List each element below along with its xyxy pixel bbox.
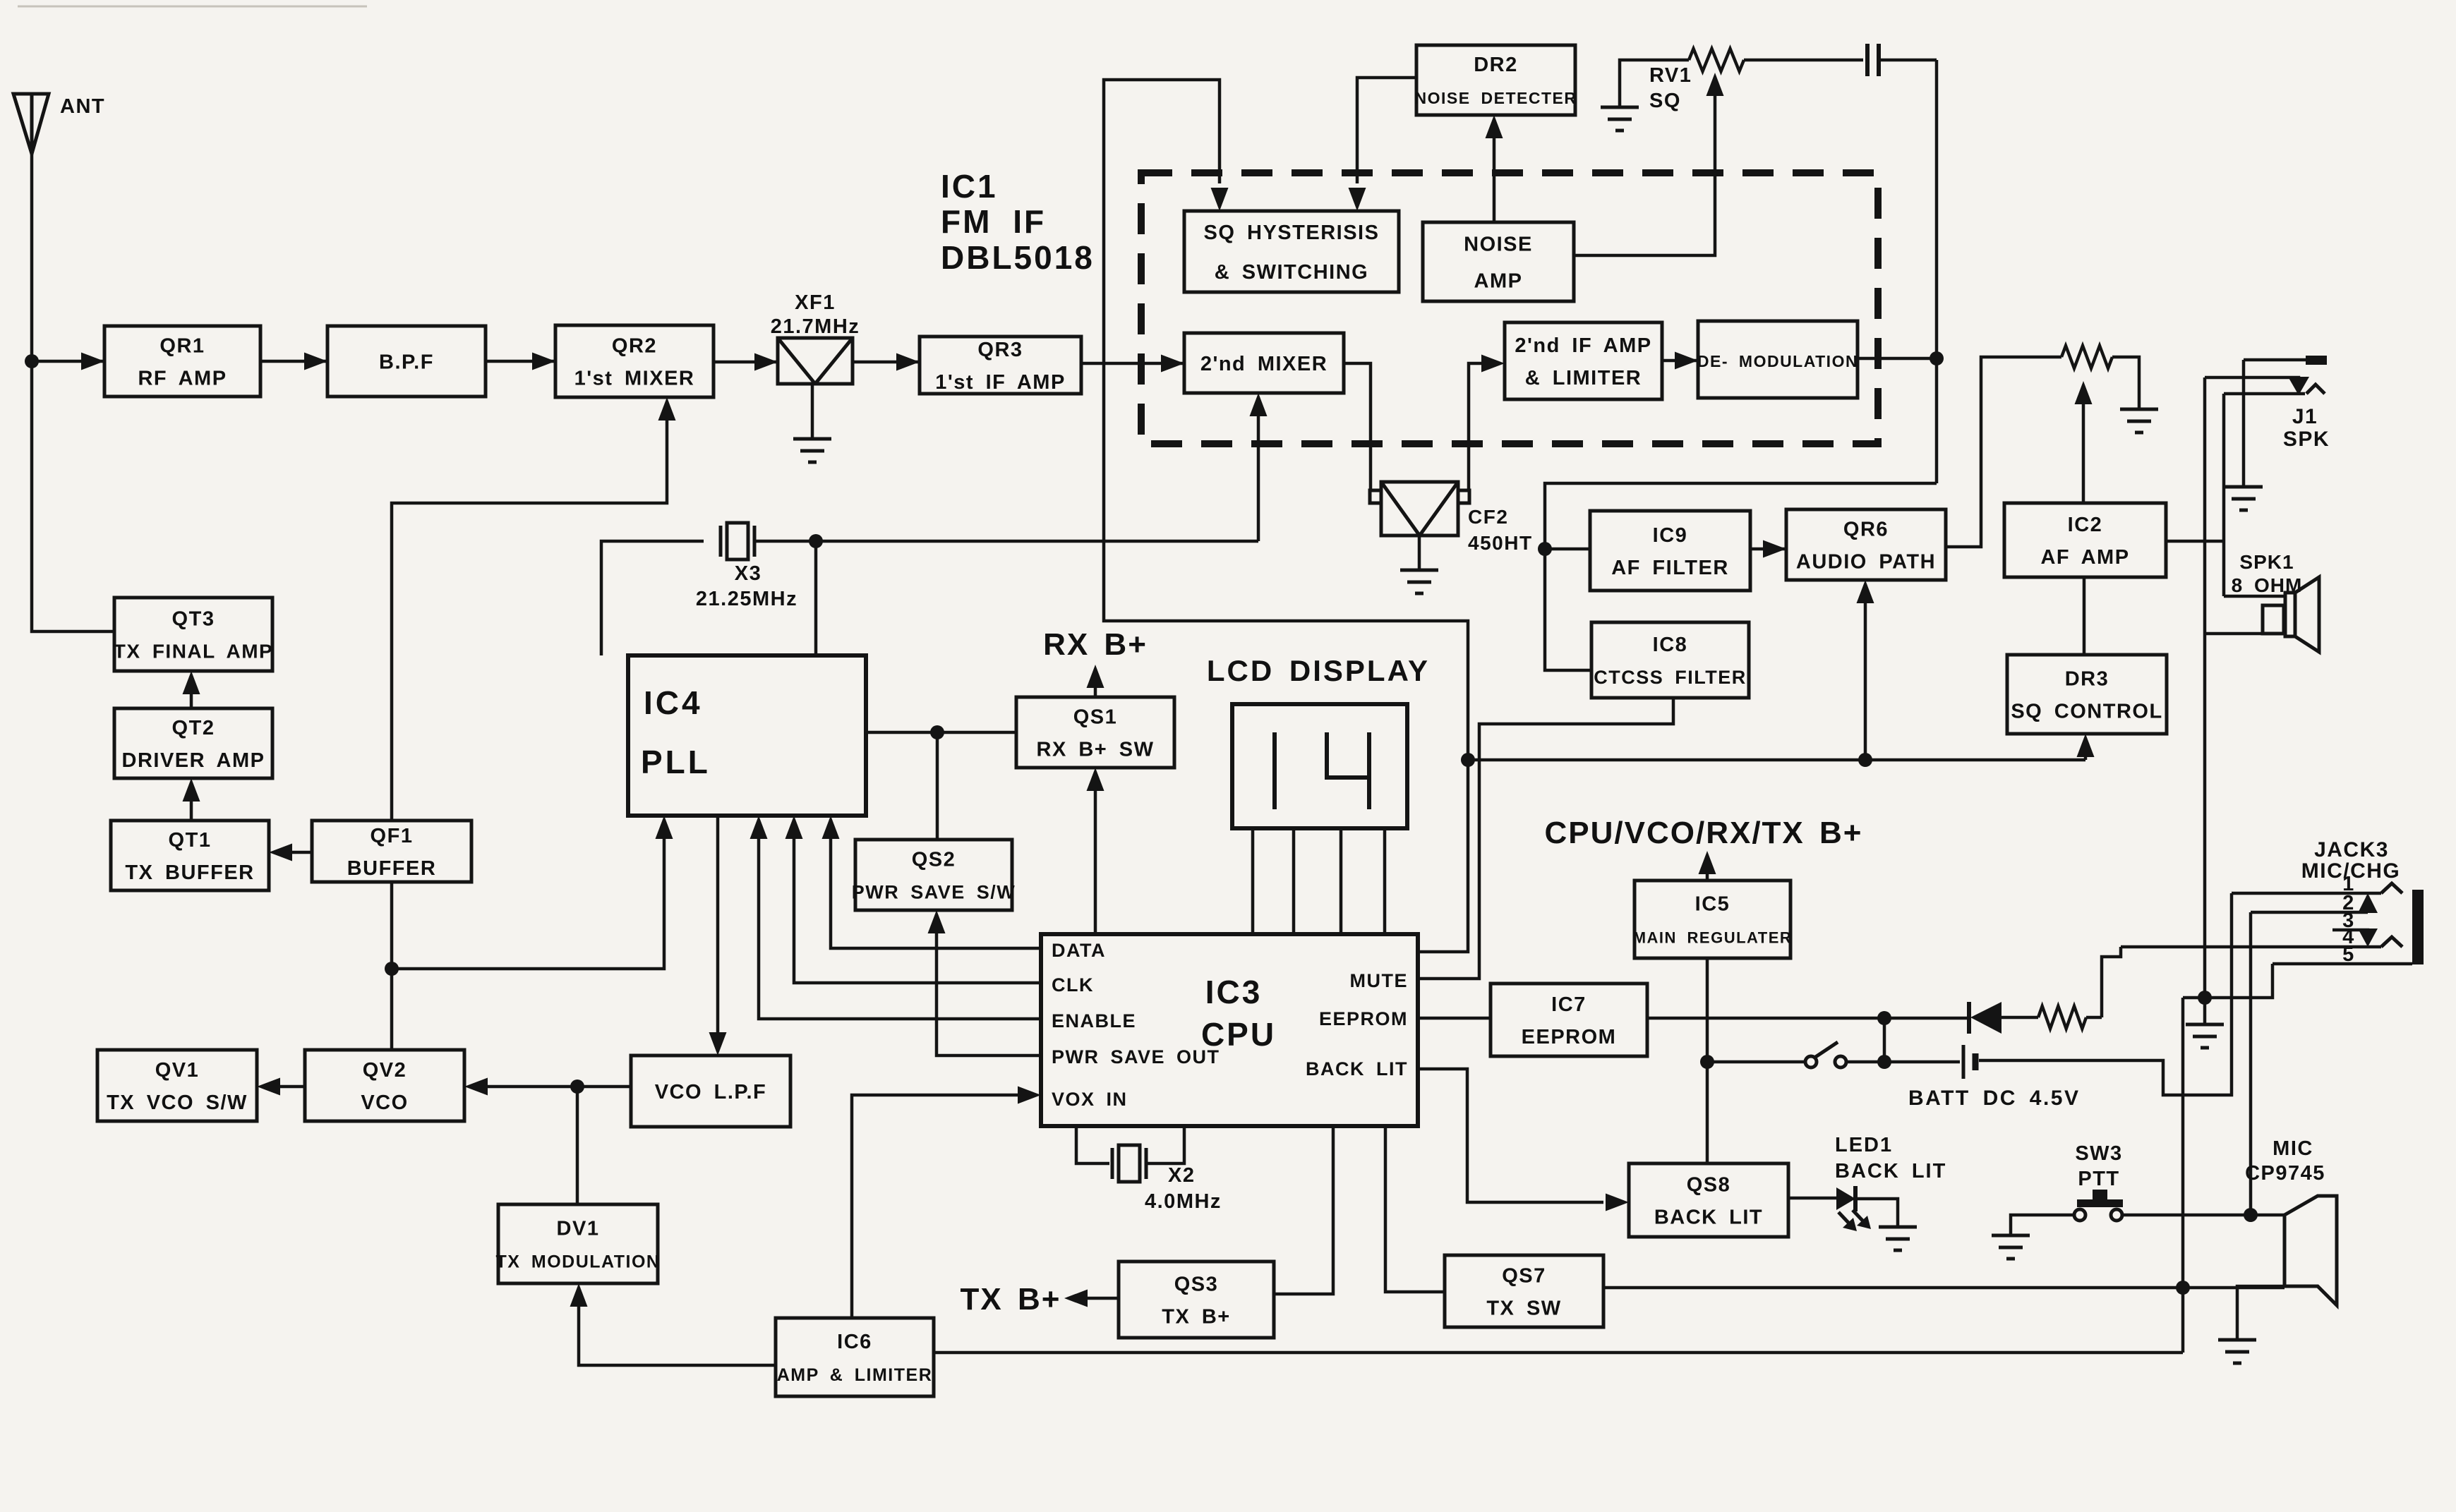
svg-text:2'nd MIXER: 2'nd MIXER [1200, 353, 1328, 375]
block IC7 EEPROM [1491, 984, 1647, 1056]
svg-text:QT2: QT2 [172, 717, 215, 739]
wire IC2 to DR3 [2083, 577, 2086, 655]
svg-text:AMP: AMP [1474, 270, 1523, 292]
potentiometer RV1 SQ [1689, 49, 1744, 71]
block QT1 TX BUFFER [111, 821, 269, 890]
svg-text:ANT: ANT [60, 95, 105, 118]
svg-text:IC6: IC6 [837, 1331, 872, 1353]
wire NOISE AMP right to RV1 wiper [1574, 79, 1715, 255]
crystal X2 4.0MHz [1111, 1148, 1114, 1179]
wire QT1 to QT2 [190, 785, 193, 821]
svg-text:1'st IF AMP: 1'st IF AMP [935, 371, 1066, 394]
svg-text:AUDIO PATH: AUDIO PATH [1796, 550, 1936, 573]
block QR3 1st IF AMP [920, 337, 1081, 394]
speaker SPK1 [2263, 605, 2284, 634]
svg-text:FM IF: FM IF [941, 203, 1046, 240]
block IC6 AMP & LIMITER [776, 1318, 934, 1396]
wires LCD to CPU [1251, 828, 1255, 934]
wire IC6 line riser [2181, 998, 2185, 1353]
wire battery node down to QS8 [1706, 1062, 1709, 1163]
svg-text:PWR SAVE OUT: PWR SAVE OUT [1052, 1046, 1220, 1068]
resistor R charge [2038, 1006, 2086, 1029]
svg-text:X2: X2 [1168, 1164, 1195, 1187]
wire DR2 left to SQ HYSTERISIS arrow [1357, 78, 1416, 183]
wire node to IC4 top [814, 541, 818, 655]
wire IC9 to QR6 [1750, 548, 1786, 551]
svg-text:SQ HYSTERISIS: SQ HYSTERISIS [1204, 222, 1380, 244]
wire QF1 up to QR2 [392, 404, 667, 821]
ground MIC [2218, 1338, 2256, 1342]
wire CPU to QS3 [1274, 1126, 1333, 1294]
jack contact chevron pin4 [2381, 937, 2402, 947]
wire IC7 to diode [1647, 1017, 1968, 1020]
svg-text:QT3: QT3 [172, 607, 215, 630]
wire CPU DATA to IC4 [831, 822, 1041, 948]
antenna ANT [13, 94, 49, 154]
block DR2 NOISE DETECTER [1416, 45, 1575, 115]
block IC8 CTCSS FILTER [1591, 622, 1749, 698]
svg-text:CP9745: CP9745 [2245, 1162, 2325, 1185]
wire LED1 to ground [1855, 1199, 1898, 1227]
wire PTT to ground [2011, 1215, 2076, 1235]
wire demod output [1858, 357, 1937, 361]
svg-text:J1: J1 [2292, 405, 2318, 428]
wire RV1 right to capacitor [1744, 59, 1863, 62]
jack JACK3 pin 5 wire [2273, 962, 2412, 966]
block 2nd IF AMP & LIMITER [1505, 322, 1662, 399]
svg-text:IC3: IC3 [1205, 974, 1263, 1010]
svg-text:MAIN REGULATER: MAIN REGULATER [1633, 929, 1793, 946]
ground RV1 [1601, 106, 1639, 109]
ground below CF2 [1400, 569, 1438, 572]
node charge line [1877, 1011, 1891, 1025]
wire IC5 to B+ label [1706, 857, 1709, 881]
svg-text:QR1: QR1 [159, 334, 205, 357]
svg-text:RX B+ SW: RX B+ SW [1037, 738, 1155, 761]
wire CPU BACK LIT to QS8 [1418, 1069, 1603, 1202]
wire QS3 to TX B+ [1071, 1297, 1119, 1300]
wire QR3 to 2nd MIXER [1081, 362, 1184, 365]
jack J1 switch contact wire [2205, 377, 2299, 384]
svg-text:PTT: PTT [2078, 1168, 2119, 1190]
svg-text:IC1: IC1 [941, 168, 998, 205]
wire QR6 out to volume pot [1946, 357, 2061, 547]
wire QF1 to QT1 [275, 851, 312, 854]
node QS7 line / IC6 riser [2176, 1281, 2190, 1295]
svg-text:TX MODULATION: TX MODULATION [496, 1252, 661, 1271]
filter CF2 450HT [1381, 482, 1458, 536]
crystal X2 wires [1076, 1126, 1109, 1163]
svg-text:B.P.F: B.P.F [379, 351, 434, 373]
svg-text:CLK: CLK [1052, 974, 1094, 996]
svg-text:DR3: DR3 [2065, 667, 2109, 690]
block QV1 TX VCO S/W [97, 1050, 257, 1121]
wire EEPROM/charge line [1418, 1017, 1491, 1020]
wire IC6 to DV1 [579, 1290, 776, 1365]
wire IC2 output right [2166, 540, 2224, 543]
wire pot right to ground [2112, 357, 2139, 409]
svg-text:DRIVER AMP: DRIVER AMP [122, 749, 265, 772]
svg-text:TX B+: TX B+ [1162, 1305, 1231, 1328]
node squelch line [1461, 753, 1475, 767]
wire pin5 riser to common node [2183, 964, 2273, 998]
wire NOISE AMP to DR2 [1493, 121, 1496, 222]
svg-text:1'st MIXER: 1'st MIXER [574, 367, 695, 389]
svg-text:BUFFER: BUFFER [347, 857, 437, 880]
wire RV1 left to ground [1620, 60, 1689, 107]
svg-text:TX B+: TX B+ [961, 1282, 1061, 1317]
node X3/IC4 [809, 534, 823, 548]
wire pin2 riser to MIC [2249, 912, 2253, 1215]
svg-text:TX VCO S/W: TX VCO S/W [107, 1091, 248, 1114]
crystal X3 wires [601, 541, 704, 655]
wire 2nd MIXER out to CF2 [1344, 363, 1371, 492]
jack JACK3 pin 2 wire [2251, 911, 2368, 914]
svg-text:QS7: QS7 [1502, 1264, 1546, 1287]
svg-text:VCO L.P.F: VCO L.P.F [655, 1081, 767, 1103]
wire QS8 to LED1 [1788, 1197, 1838, 1200]
wire QR1 to BPF [260, 360, 327, 363]
svg-text:SW3: SW3 [2075, 1142, 2122, 1165]
wire LO arrow into 2nd MIXER [1257, 399, 1260, 541]
wire diode to resistor [2001, 1016, 2038, 1020]
svg-text:LED1: LED1 [1835, 1134, 1893, 1156]
svg-text:QR3: QR3 [977, 339, 1023, 361]
wire speaker ring bus [2222, 394, 2226, 596]
ground SW3 [1992, 1234, 2030, 1238]
LED LED1 [1836, 1187, 1855, 1210]
svg-text:RX B+: RX B+ [1043, 627, 1148, 662]
svg-text:QT1: QT1 [169, 829, 212, 852]
wire squelch net CPU to SQ HYSTERISIS / QR6 / DR3 [1104, 80, 1468, 952]
wire CPU ENABLE to IC4 [759, 822, 1041, 1019]
svg-text:QS3: QS3 [1174, 1273, 1219, 1295]
svg-text:BACK LIT: BACK LIT [1306, 1058, 1408, 1079]
svg-text:EEPROM: EEPROM [1319, 1008, 1408, 1029]
svg-text:SQ CONTROL: SQ CONTROL [2011, 700, 2162, 722]
svg-text:IC2: IC2 [2068, 514, 2103, 536]
svg-text:QS2: QS2 [912, 848, 956, 871]
jack JACK3 pin 1 wire [2232, 892, 2381, 895]
svg-text:2'nd IF AMP: 2'nd IF AMP [1515, 334, 1651, 357]
switch SW3 PTT [2077, 1199, 2123, 1207]
wire antenna down to TX final amp [32, 154, 114, 631]
svg-text:BACK LIT: BACK LIT [1835, 1160, 1946, 1183]
node AF split [1538, 542, 1552, 556]
block IC9 AF FILTER [1590, 511, 1750, 591]
block QT2 DRIVER AMP [114, 708, 272, 778]
jack J1 spring contact [2306, 385, 2325, 394]
wire QS7 to MIC [1603, 1286, 2285, 1290]
ground below XF1 [793, 437, 831, 441]
svg-text:21.7MHz: 21.7MHz [771, 315, 860, 338]
wire QS1 to RX B+ [1094, 670, 1097, 697]
wire MIC bottom to ground [2237, 1286, 2285, 1340]
svg-text:450HT: 450HT [1468, 532, 1533, 554]
wire IC8 to CPU MUTE [1419, 698, 1673, 979]
wire IF AMP to DE-MODULATION [1662, 359, 1698, 363]
wire node to ground [2203, 998, 2207, 1024]
wire X3 to 2nd mixer LO [754, 540, 1258, 543]
svg-text:PWR SAVE S/W: PWR SAVE S/W [852, 881, 1016, 902]
wire QR2 to XF1 [714, 361, 778, 364]
block QS7 TX SW [1445, 1255, 1603, 1327]
diode D (charge) [1967, 1002, 1971, 1034]
LCD digit 1 [1272, 732, 1277, 809]
jack JACK3 pin 4 wire [2121, 945, 2381, 949]
node antenna/RX tap [25, 354, 39, 368]
svg-text:NOISE: NOISE [1464, 233, 1533, 255]
block NOISE AMP [1423, 222, 1574, 301]
jack contact chevron pin1 [2381, 883, 2402, 893]
block SQ HYSTERISIS & SWITCHING [1184, 211, 1399, 292]
svg-text:& LIMITER: & LIMITER [1525, 367, 1642, 389]
block QS1 RX B+ SW [1016, 697, 1174, 768]
svg-text:QR6: QR6 [1843, 518, 1889, 540]
block QV2 VCO [305, 1050, 464, 1121]
wire XF1 to QR3 [853, 361, 920, 364]
block QT3 TX FINAL AMP [114, 598, 272, 671]
block DE-MODULATION [1698, 321, 1858, 398]
svg-text:IC9: IC9 [1653, 524, 1688, 547]
wire to IC9 AF FILTER [1545, 548, 1590, 551]
wire node down to DV1 [576, 1087, 579, 1204]
node IC5/battery [1700, 1055, 1714, 1069]
speaker SPK1 wires [2224, 595, 2287, 598]
wire IC4 to VCO LPF [716, 816, 720, 1049]
block 2nd MIXER [1184, 333, 1344, 393]
svg-text:CF2: CF2 [1468, 506, 1508, 528]
svg-text:21.25MHz: 21.25MHz [696, 588, 797, 610]
wire J1 to ground [2242, 360, 2246, 487]
svg-text:QS8: QS8 [1687, 1173, 1731, 1196]
svg-text:VCO: VCO [361, 1091, 408, 1114]
svg-text:NOISE DETECTER: NOISE DETECTER [1415, 89, 1577, 107]
svg-text:QF1: QF1 [371, 825, 414, 847]
svg-text:QR2: QR2 [612, 334, 657, 357]
wire QV2 to QV1 [263, 1085, 305, 1089]
dashed box IC1 [1141, 173, 1878, 444]
ground volume pot [2120, 408, 2158, 411]
wire IC5 down to battery line [1706, 958, 1709, 1062]
block IC4 PLL [628, 655, 866, 816]
capacitor C (squelch) [1865, 44, 1870, 76]
node to QR6 [1858, 753, 1872, 767]
svg-text:DV1: DV1 [557, 1217, 600, 1240]
wire IC6 right to MIC line [934, 1351, 2183, 1355]
wire CPU CLK to IC4 [794, 822, 1041, 983]
svg-text:VOX IN: VOX IN [1052, 1089, 1128, 1110]
svg-text:4.0MHz: 4.0MHz [1145, 1190, 1222, 1213]
svg-text:RF AMP: RF AMP [138, 367, 227, 389]
wire BPF to QR2 [486, 360, 555, 363]
svg-text:SPK1: SPK1 [2239, 551, 2294, 573]
svg-text:& SWITCHING: & SWITCHING [1215, 261, 1368, 284]
svg-text:IC5: IC5 [1695, 893, 1730, 915]
svg-text:IC7: IC7 [1551, 993, 1587, 1016]
svg-text:BACK LIT: BACK LIT [1654, 1206, 1763, 1228]
node demod output [1930, 351, 1944, 365]
svg-text:CTCSS FILTER: CTCSS FILTER [1594, 667, 1747, 688]
svg-text:CPU/VCO/RX/TX B+: CPU/VCO/RX/TX B+ [1545, 816, 1863, 850]
wire demod audio feedback to IC9/IC8 [1545, 483, 1937, 670]
block QS8 BACK LIT [1629, 1163, 1788, 1237]
svg-text:QV2: QV2 [363, 1059, 407, 1082]
wire node to IC4 [392, 822, 664, 969]
ground J1 [2225, 485, 2263, 489]
wire arrow into DR3 bottom [2084, 739, 2088, 760]
svg-text:AMP & LIMITER: AMP & LIMITER [777, 1365, 933, 1385]
svg-text:MUTE: MUTE [1350, 970, 1409, 991]
svg-text:QV1: QV1 [155, 1059, 200, 1082]
svg-text:DBL5018: DBL5018 [941, 239, 1095, 276]
node speaker bus / pin5 [2198, 991, 2212, 1005]
block QR6 AUDIO PATH [1786, 509, 1946, 580]
wire resistor to pin4 riser [2086, 1016, 2102, 1020]
block VCO LPF [631, 1056, 790, 1127]
wire XF1 to ground [811, 384, 814, 439]
svg-text:LCD DISPLAY: LCD DISPLAY [1207, 654, 1430, 687]
block IC3 CPU [1041, 934, 1418, 1126]
filter XF1 21.7MHz [778, 338, 853, 384]
svg-text:MIC: MIC [2273, 1137, 2313, 1160]
potentiometer volume [2061, 346, 2112, 368]
block QS3 TX B+ [1119, 1262, 1274, 1338]
wire pin1 riser to battery [1982, 893, 2232, 1095]
svg-text:TX SW: TX SW [1486, 1297, 1561, 1319]
scan artifact line [18, 6, 367, 8]
block QR2 1st MIXER [555, 325, 714, 397]
svg-text:TX BUFFER: TX BUFFER [125, 861, 254, 884]
block IC2 AF AMP [2004, 503, 2166, 577]
wire node down to battery line [1883, 1018, 1886, 1062]
svg-text:SPK: SPK [2283, 428, 2330, 451]
wire IC2 in from pot wiper [2082, 387, 2085, 503]
svg-text:DR2: DR2 [1474, 54, 1518, 76]
wire CPU to QS1 [1094, 774, 1097, 934]
wire QT2 to QT3 [190, 677, 193, 708]
svg-text:BATT DC 4.5V: BATT DC 4.5V [1908, 1087, 2080, 1110]
svg-text:XF1: XF1 [795, 291, 836, 314]
node VCO line / DV1 [570, 1079, 584, 1094]
wire capacitor to demod node [1879, 59, 1937, 62]
block DR3 SQ CONTROL [2007, 655, 2167, 734]
block IC5 MAIN REGULATER [1635, 881, 1790, 958]
battery BATT DC 4.5V [1962, 1045, 1966, 1079]
switch SW power [1805, 1056, 1817, 1068]
svg-text:RV1: RV1 [1649, 64, 1692, 87]
svg-text:QS1: QS1 [1073, 706, 1118, 728]
wire CPU PWR SAVE OUT to QS2 [937, 917, 1041, 1056]
ground LED1 [1879, 1226, 1917, 1229]
wire IC6 top to CPU VOX IN [852, 1095, 1035, 1318]
wire CF2 to 2nd IF AMP [1469, 363, 1482, 492]
jack J1 tip bar [2306, 356, 2327, 365]
wire ANT to QR1 [32, 360, 104, 363]
wire CF2 to ground [1418, 536, 1421, 570]
svg-text:ENABLE: ENABLE [1052, 1010, 1136, 1032]
wire IC4 right to QS1 [866, 731, 1016, 734]
svg-text:DATA: DATA [1052, 940, 1106, 961]
wire PTT to MIC line [2121, 1214, 2285, 1217]
node QS1/QS2 feed [930, 725, 944, 739]
block QS2 PWR SAVE S/W [855, 840, 1012, 910]
wire battery line / power switch [1707, 1060, 1806, 1064]
svg-text:X3: X3 [735, 562, 762, 585]
block QR1 RF AMP [104, 326, 260, 397]
node MIC / pin2 [2244, 1208, 2258, 1222]
svg-text:IC8: IC8 [1653, 634, 1688, 656]
svg-text:EEPROM: EEPROM [1522, 1026, 1617, 1048]
svg-text:TX FINAL AMP: TX FINAL AMP [114, 640, 273, 662]
wire arrow into QR6 bottom [1864, 586, 1867, 760]
jack J1 tip contact wire [2244, 358, 2307, 362]
svg-text:JACK3: JACK3 [2314, 838, 2389, 861]
block QF1 BUFFER [312, 821, 471, 882]
block LCD DISPLAY [1232, 704, 1407, 828]
jack JACK3 body bar [2412, 890, 2424, 964]
svg-text:SQ: SQ [1649, 90, 1681, 112]
svg-text:IC4: IC4 [644, 684, 703, 721]
node battery line [1877, 1055, 1891, 1069]
jack J1 ring contact wire [2224, 392, 2305, 396]
wire node to QS2 top [936, 732, 939, 840]
svg-text:DE- MODULATION: DE- MODULATION [1697, 352, 1858, 370]
LCD digit 4 [1327, 732, 1369, 778]
jack JACK3 pin 3 wire [2332, 930, 2368, 938]
ground jack bus [2186, 1023, 2224, 1027]
wire vertical jack/speaker bus [2203, 377, 2207, 998]
wire VCO LPF to QV2 [471, 1085, 631, 1089]
svg-text:PLL: PLL [641, 744, 711, 780]
block DV1 TX MODULATION [498, 1204, 658, 1283]
wire squelch to QR6/DR3 [1468, 758, 2085, 762]
svg-text:AF AMP: AF AMP [2040, 546, 2129, 569]
svg-text:AF FILTER: AF FILTER [1611, 557, 1729, 579]
wire QF1 down to QV2 [390, 882, 394, 1050]
block BPF [327, 326, 486, 397]
microphone MIC CP9745 [2285, 1196, 2337, 1305]
wire CPU to QS7 [1385, 1126, 1445, 1292]
node QF1/QV2/IC4 [385, 962, 399, 976]
crystal X3 21.25MHz [719, 526, 723, 557]
wire pin4 riser to charge resistor [2102, 947, 2121, 1017]
